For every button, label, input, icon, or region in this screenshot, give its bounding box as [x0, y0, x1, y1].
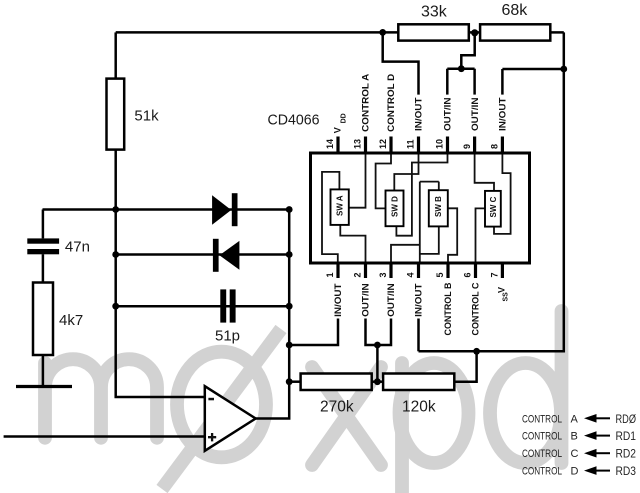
svg-text:V: V	[333, 127, 343, 133]
svg-text:RD3: RD3	[616, 466, 637, 478]
svg-text:10: 10	[435, 139, 445, 149]
svg-text:V: V	[497, 287, 507, 293]
svg-text:OUT/IN: OUT/IN	[443, 98, 453, 132]
svg-text:IN/OUT: IN/OUT	[414, 97, 424, 131]
svg-text:CONTROL B: CONTROL B	[443, 282, 453, 335]
svg-text:C: C	[571, 448, 579, 460]
svg-text:IN/OUT: IN/OUT	[414, 283, 424, 317]
svg-text:8: 8	[490, 144, 500, 149]
svg-text:DD: DD	[340, 113, 347, 123]
svg-text:SW A: SW A	[336, 195, 345, 216]
svg-text:CONTROL: CONTROL	[522, 431, 562, 443]
svg-text:D: D	[571, 466, 579, 478]
svg-text:SS: SS	[502, 292, 509, 302]
svg-text:SW D: SW D	[390, 196, 399, 217]
svg-text:9: 9	[462, 144, 472, 149]
svg-text:5: 5	[435, 272, 445, 277]
svg-text:68k: 68k	[502, 2, 529, 19]
svg-text:OUT/IN: OUT/IN	[361, 283, 371, 317]
svg-text:14: 14	[325, 139, 335, 149]
svg-text:RDØ: RDØ	[616, 414, 637, 426]
svg-text:IN/OUT: IN/OUT	[333, 283, 343, 317]
svg-text:SW C: SW C	[489, 196, 498, 217]
svg-text:6: 6	[463, 272, 473, 277]
svg-text:OUT/IN: OUT/IN	[470, 98, 480, 132]
svg-text:CD4066: CD4066	[268, 112, 320, 129]
svg-text:SW B: SW B	[434, 196, 443, 217]
svg-text:CONTROL C: CONTROL C	[471, 282, 481, 335]
svg-text:11: 11	[406, 139, 416, 149]
svg-text:47n: 47n	[65, 239, 90, 256]
svg-text:CONTROL: CONTROL	[522, 466, 562, 478]
svg-text:IN/OUT: IN/OUT	[498, 97, 508, 131]
svg-text:33k: 33k	[421, 4, 448, 21]
svg-text:B: B	[571, 431, 578, 443]
svg-text:51p: 51p	[215, 328, 240, 345]
svg-text:7: 7	[490, 272, 500, 277]
svg-text:3: 3	[378, 272, 388, 277]
svg-text:12: 12	[378, 139, 388, 149]
svg-text:1: 1	[325, 272, 335, 277]
svg-text:2: 2	[353, 272, 363, 277]
svg-text:13: 13	[353, 139, 363, 149]
svg-text:270k: 270k	[320, 399, 354, 416]
svg-text:RD1: RD1	[616, 431, 637, 443]
svg-text:CONTROL D: CONTROL D	[386, 73, 396, 132]
svg-text:A: A	[571, 413, 579, 425]
svg-text:RD2: RD2	[616, 449, 637, 461]
svg-text:4k7: 4k7	[59, 312, 83, 329]
svg-text:51k: 51k	[134, 108, 159, 125]
svg-text:CONTROL: CONTROL	[522, 448, 562, 460]
svg-text:CONTROL: CONTROL	[522, 413, 562, 425]
svg-text:OUT/IN: OUT/IN	[386, 283, 396, 317]
svg-text:CONTROL A: CONTROL A	[361, 73, 371, 132]
svg-text:120k: 120k	[402, 399, 436, 416]
svg-text:4: 4	[406, 272, 416, 277]
